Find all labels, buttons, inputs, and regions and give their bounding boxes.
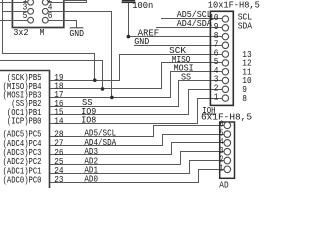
svg-text:GND: GND <box>134 37 149 47</box>
svg-text:1: 1 <box>220 164 224 174</box>
IC U1 ATmega box <box>0 71 50 189</box>
svg-text:SS: SS <box>181 72 191 82</box>
wire MISO: IC pin18 row to IOH pin5 <box>50 63 223 89</box>
junction node on AREF at capacitor <box>127 35 131 39</box>
label IOH underline <box>202 113 215 115</box>
capacitor lead down to AREF wire <box>128 4 130 37</box>
svg-text:6x1F-H8,5: 6x1F-H8,5 <box>201 113 252 123</box>
wire IO8: IC pin14 row to IOH pin1 <box>50 99 223 124</box>
wire AREF <box>129 36 223 38</box>
wire MISO to ICSP pin1 <box>1 2 28 4</box>
wire MOSI: IC pin17 row to IOH pin4 <box>50 72 223 98</box>
svg-text:GND: GND <box>69 28 84 39</box>
wire AD5/SCL: IC pin28 to AD pin6 <box>50 126 225 137</box>
svg-text:AD: AD <box>219 180 228 188</box>
wire RESET to ICSP pin5 <box>1 20 28 22</box>
wire GND to IOH pin7 <box>135 45 223 47</box>
svg-text:5: 5 <box>23 11 28 21</box>
wire IO9: IC pin15 row to IOH pin2 <box>50 90 223 115</box>
wire AD3: IC pin26 to AD pin4 <box>50 143 225 155</box>
wire SCK to ICSP pin3 <box>3 11 28 13</box>
wire AD2: IC pin25 to AD pin3 <box>50 152 225 165</box>
pin circles IOH <box>222 16 228 102</box>
svg-text:14: 14 <box>54 116 63 126</box>
svg-text:M: M <box>40 27 45 38</box>
wire SS: IC pin16 row to IOH pin3 <box>50 81 223 107</box>
wire MOSI from ICSP pin4 down to IC pin17 <box>49 12 112 98</box>
wire AD5/SCL stub at IOH pin10 <box>162 18 223 20</box>
svg-text:IO8: IO8 <box>81 116 96 126</box>
connector AD 6x1F box <box>220 122 235 178</box>
junction node on pin18 (MISO) <box>101 87 105 91</box>
ground symbol GND <box>70 27 83 29</box>
svg-text:SDA: SDA <box>238 21 253 31</box>
junction node on pin17 (MOSI) <box>110 96 114 100</box>
svg-text:3x2: 3x2 <box>13 27 28 38</box>
svg-text:100n: 100n <box>132 1 153 11</box>
connector IOH 10x1F box <box>210 11 233 105</box>
wire SCK from top-left down and to IC pin19 <box>3 1 95 81</box>
connector J-ICSP 3x2 box <box>12 0 63 28</box>
pin circles AD <box>224 122 231 173</box>
svg-text:8: 8 <box>242 94 247 104</box>
svg-text:6: 6 <box>48 11 53 21</box>
junction node on pin19 (SCK) <box>93 78 97 82</box>
svg-text:1: 1 <box>214 92 219 102</box>
svg-text:(ICP)PB0: (ICP)PB0 <box>7 117 42 127</box>
wire SCK: IC pin19 row to IOH pin6 <box>50 55 223 81</box>
svg-text:23: 23 <box>54 175 63 185</box>
svg-text:(ADC0)PC0: (ADC0)PC0 <box>3 175 42 185</box>
capacitor C 100n top plate (cut by image edge) <box>123 0 135 1</box>
pin circles ICSP <box>28 0 48 23</box>
svg-text:10x1F-H8,5: 10x1F-H8,5 <box>208 1 260 11</box>
wire AD1: IC pin24 to AD pin2 <box>50 161 225 174</box>
wire AD0: IC pin23 to AD pin1 <box>50 170 225 183</box>
capacitor C 100n plate <box>123 1 135 3</box>
wire MISO from left to IC pin18 <box>1 61 103 89</box>
svg-text:AD0: AD0 <box>84 175 98 185</box>
wire AD4/SDA: IC pin27 to AD pin5 <box>50 135 225 146</box>
wire +5V from ICSP pin2 (U-turn) <box>49 1 87 3</box>
wire GND from ICSP pin6 <box>49 21 77 28</box>
wire AD4/SDA stub at IOH pin9 <box>157 27 223 29</box>
svg-text:AD4/SDA: AD4/SDA <box>177 19 213 29</box>
